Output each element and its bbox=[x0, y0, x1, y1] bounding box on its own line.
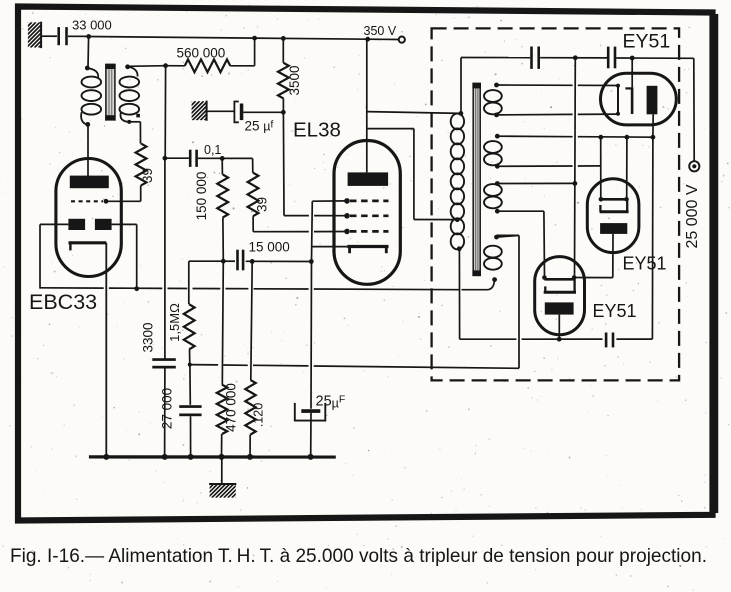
svg-text:25 000 V: 25 000 V bbox=[684, 184, 701, 248]
svg-text:.120: .120 bbox=[252, 403, 266, 427]
svg-text:470 000: 470 000 bbox=[224, 383, 239, 432]
svg-text:Fig. I-16.— Alimentation T. H.: Fig. I-16.— Alimentation T. H. T. à 25.0… bbox=[10, 545, 707, 567]
svg-text:1,5MΩ: 1,5MΩ bbox=[167, 303, 182, 342]
svg-text:25 µf: 25 µf bbox=[245, 119, 274, 134]
svg-text:350 V: 350 V bbox=[364, 24, 397, 38]
svg-text:39: 39 bbox=[255, 197, 270, 212]
svg-text:3300: 3300 bbox=[140, 322, 155, 352]
svg-text:EL38: EL38 bbox=[293, 119, 341, 142]
svg-text:33 000: 33 000 bbox=[72, 18, 112, 33]
svg-text:27 000: 27 000 bbox=[160, 388, 175, 429]
svg-text:560 000: 560 000 bbox=[177, 46, 226, 61]
svg-text:15 000: 15 000 bbox=[249, 240, 290, 255]
svg-text:39: 39 bbox=[140, 168, 155, 183]
svg-text:EY51: EY51 bbox=[623, 31, 671, 53]
svg-text:0,1: 0,1 bbox=[204, 143, 221, 157]
svg-text:EY51: EY51 bbox=[593, 301, 637, 321]
svg-text:EBC33: EBC33 bbox=[29, 290, 97, 314]
svg-text:150 000: 150 000 bbox=[194, 172, 209, 221]
svg-text:EY51: EY51 bbox=[623, 254, 667, 274]
svg-text:3500: 3500 bbox=[287, 65, 302, 95]
